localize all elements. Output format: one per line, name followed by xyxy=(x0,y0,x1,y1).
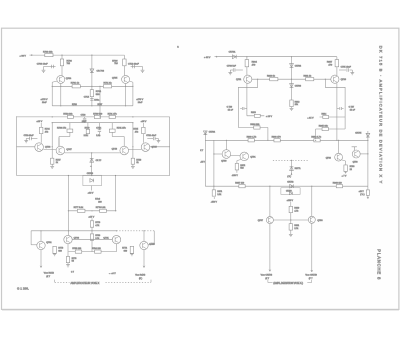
wire +62V rail xyxy=(218,56,337,58)
wire R804 branch xyxy=(246,57,248,75)
transistor Q798 xyxy=(308,216,315,223)
svg-text:(AMPL.DEVIATION VOIE X.): (AMPL.DEVIATION VOIE X.) xyxy=(273,282,303,285)
wire Q738-Q741 link xyxy=(72,238,112,240)
node junction rail/R706 xyxy=(61,55,62,56)
resistor R711 1k xyxy=(103,85,111,88)
svg-text:1k: 1k xyxy=(56,162,58,164)
wire x213.9 column xyxy=(213,140,215,186)
wire Q747 output to right pair xyxy=(65,152,120,154)
capacitor C712 10nF xyxy=(131,66,143,68)
diode CR783 in box xyxy=(281,188,300,195)
svg-text:CR705: CR705 xyxy=(355,132,362,134)
svg-text:C705 40nF: C705 40nF xyxy=(341,66,352,68)
transistor Q705 xyxy=(122,75,130,83)
node junction x100 xyxy=(99,86,100,87)
wire bias H y127.5 xyxy=(238,127,268,129)
resistor R815 10k xyxy=(322,127,328,130)
wire R745 to Q749 xyxy=(142,134,144,143)
svg-text:Q790: Q790 xyxy=(221,160,227,162)
wire R820-R821 xyxy=(290,213,292,224)
svg-text:Q731: Q731 xyxy=(46,242,52,244)
node junction bias xyxy=(68,210,69,211)
resistor R744 47k xyxy=(40,123,42,127)
wire emitter link y86.3 xyxy=(52,85,92,87)
wire diode chain x91.7 xyxy=(91,153,93,175)
ground R773 xyxy=(53,254,57,256)
wire Q704 collector lower xyxy=(60,84,62,106)
wire R744 to Q746 xyxy=(40,134,42,143)
wire diode column lower xyxy=(291,160,293,175)
resistor R734 560 xyxy=(90,90,93,97)
resistor R816 4.7k xyxy=(314,139,320,142)
wire Q748-Q749 link xyxy=(129,148,142,150)
svg-text:AMPLIFICATEUR VOIE X: AMPLIFICATEUR VOIE X xyxy=(71,282,100,285)
transistor Q746 xyxy=(35,143,44,152)
wire cross-coupling dashed xyxy=(117,230,155,232)
svg-text:R709: R709 xyxy=(112,60,118,62)
resistor R807 470 xyxy=(335,60,339,67)
svg-text:CR782: CR782 xyxy=(287,182,294,184)
svg-text:R868 110: R868 110 xyxy=(333,183,343,185)
svg-text:(K ): (K ) xyxy=(139,278,143,280)
node junction x213.9 xyxy=(213,153,214,154)
wire +170V rail xyxy=(52,105,133,107)
svg-text:Q711: Q711 xyxy=(236,79,242,81)
wire Q731 base leg xyxy=(30,231,32,245)
wire Q798 collector drop xyxy=(311,186,313,216)
svg-text:CR701: CR701 xyxy=(229,52,237,54)
svg-text:CR786: CR786 xyxy=(87,173,94,175)
svg-text:R809 4.7k: R809 4.7k xyxy=(247,137,257,139)
node junction output link xyxy=(290,219,291,220)
ground R728 xyxy=(132,164,134,166)
wire Q797 collector drop xyxy=(269,186,271,216)
svg-text:4.7k: 4.7k xyxy=(294,210,298,212)
wire x115.5 drop xyxy=(115,176,117,211)
wire bus y116.9 xyxy=(17,116,170,118)
svg-text:+ 15 V: + 15 V xyxy=(307,117,314,119)
svg-text:CR702: CR702 xyxy=(295,65,302,67)
node junctions base line xyxy=(257,79,258,80)
svg-text:→ +6 V: → +6 V xyxy=(109,273,117,275)
node junction rail2 xyxy=(91,105,92,106)
wire diode column center upper xyxy=(291,57,293,109)
svg-text:CR704: CR704 xyxy=(209,132,216,134)
node -150V label xyxy=(236,170,238,173)
svg-text:Q798: Q798 xyxy=(317,220,323,222)
wire L-feedback right xyxy=(325,79,345,129)
resistor R820 4.7k xyxy=(289,206,292,212)
svg-text:R734: R734 xyxy=(96,91,102,93)
resistor R804 470 xyxy=(245,60,249,67)
ground for C720 xyxy=(26,138,29,140)
node junctions bottom line xyxy=(115,175,116,176)
wire Q742 collector xyxy=(143,231,145,242)
resistor R731 47k xyxy=(109,115,115,118)
wire Q792 emitter chain xyxy=(345,161,347,165)
resistor R810 1k xyxy=(270,78,278,81)
ground R727 xyxy=(51,164,53,166)
resistor R806 10k xyxy=(254,126,260,129)
wire cross-coupling y232 xyxy=(31,230,116,232)
svg-text:+ 7 V: + 7 V xyxy=(342,176,347,178)
svg-text:R730 500: R730 500 xyxy=(93,113,103,115)
resistor R722 10k xyxy=(68,115,74,118)
capacitor C744 2.2uF xyxy=(98,123,100,130)
svg-text:+15 V: +15 V xyxy=(36,121,42,123)
transistor Q791 xyxy=(240,152,249,161)
node junctions y232 xyxy=(68,230,69,231)
svg-text:R702 12k: R702 12k xyxy=(43,51,53,53)
wire dashed inter-block xyxy=(273,159,308,161)
wire Q790 base from x213.9 xyxy=(214,153,222,155)
diode CR701 on rail xyxy=(232,55,236,59)
resistor R702 12k xyxy=(45,54,53,57)
svg-text:R877k: R877k xyxy=(295,168,301,170)
svg-text:10uF: 10uF xyxy=(42,102,47,104)
svg-text:R711 1k: R711 1k xyxy=(104,83,113,85)
resistor R738 row2 xyxy=(69,123,71,129)
wire bracket amplificateur voie X xyxy=(54,280,56,283)
svg-text:CR 7?: CR 7? xyxy=(96,160,103,162)
svg-text:R722 10k: R722 10k xyxy=(63,113,73,115)
wire bias line y210.8 xyxy=(68,210,116,212)
svg-text:R806 10k: R806 10k xyxy=(250,124,260,126)
wire rail corner right xyxy=(336,57,338,75)
svg-text:G 1 288.: G 1 288. xyxy=(17,287,29,291)
resistor R878 below bus right xyxy=(367,186,369,190)
resistor R821 2.7k xyxy=(289,224,292,230)
wire Q797 output down xyxy=(269,224,271,271)
node arrow tick xyxy=(291,173,293,175)
node junction link xyxy=(91,239,92,240)
resistor R727 1k xyxy=(51,158,54,164)
svg-text:Q797: Q797 xyxy=(258,220,264,222)
transistor Q793 xyxy=(352,147,357,151)
wire Q720 emitter down xyxy=(336,83,338,140)
resistor R779 4.7k xyxy=(91,218,93,221)
wire Q798 output down xyxy=(311,223,313,271)
svg-text:100n: 100n xyxy=(94,100,100,102)
svg-text:2.7k: 2.7k xyxy=(294,228,298,230)
resistor R814 xyxy=(323,116,329,119)
transistor Q738 xyxy=(64,235,72,243)
transistor Q720 xyxy=(331,75,339,83)
svg-text:2.2u: 2.2u xyxy=(96,135,100,137)
wire row2 bottom right xyxy=(112,136,124,138)
diode CR780 on bus xyxy=(290,184,294,188)
svg-text:CR783: CR783 xyxy=(286,190,292,192)
svg-text:+ 15 V: + 15 V xyxy=(266,116,273,118)
wire +80V rail xyxy=(33,54,124,56)
svg-text:Q705: Q705 xyxy=(112,77,118,79)
wire Q704 emitter to +170V rail xyxy=(51,82,53,106)
svg-text:Q704: Q704 xyxy=(66,78,72,80)
svg-text:Q748: Q748 xyxy=(112,149,118,151)
wire Q731 output to coil xyxy=(40,250,42,267)
ground R774 xyxy=(130,254,134,256)
wire R779-R780 xyxy=(91,227,93,234)
svg-text:C720 40nF: C720 40nF xyxy=(24,135,35,137)
svg-text:C703 10nF: C703 10nF xyxy=(37,64,48,66)
resistor R867 110 xyxy=(239,185,245,188)
ground R821 xyxy=(290,230,292,234)
svg-text:R731 47k: R731 47k xyxy=(108,113,118,115)
svg-text:+150 V: +150 V xyxy=(287,200,294,202)
wire Q705 lower xyxy=(125,84,127,106)
wire CR708 branch xyxy=(91,55,93,106)
svg-text:-15 V: -15 V xyxy=(200,161,205,163)
resistor R745 47k xyxy=(142,123,144,127)
wire Q793 base wire xyxy=(360,153,368,155)
wire Q731 collector xyxy=(40,231,42,242)
wire right box edge xyxy=(169,117,171,176)
wire R706 branch xyxy=(61,55,63,75)
resistor R730 500 xyxy=(94,115,100,118)
wire bus y122.7 xyxy=(52,122,133,124)
resistor R872 5k6 xyxy=(235,163,238,170)
ground R812 xyxy=(290,108,294,110)
wire row2 bottom left xyxy=(59,136,70,138)
wire link Q797-Q798 xyxy=(273,219,308,221)
wire L-feedback left xyxy=(238,79,257,127)
resistor R781 1k xyxy=(72,85,80,88)
diode CR785 xyxy=(90,159,94,163)
svg-text:Vers CR7X8: Vers CR7X8 xyxy=(261,274,273,277)
svg-text:Q792: Q792 xyxy=(326,157,332,159)
svg-text:47k: 47k xyxy=(45,131,48,133)
svg-text:+15 V: +15 V xyxy=(141,121,147,123)
wire rail corner to R709 xyxy=(123,55,125,75)
svg-text:DK 715 B · AMPLIFICATEUR DE: DK 715 B · AMPLIFICATEUR DE DEVIATION X … xyxy=(378,46,383,185)
wire R780 down xyxy=(91,240,93,251)
wire +15V branch left xyxy=(247,115,264,117)
resistor R740 2k2 xyxy=(87,123,89,130)
svg-text:2.7k: 2.7k xyxy=(95,238,99,240)
svg-text:R807: R807 xyxy=(327,61,333,63)
wire emitter column left xyxy=(51,123,53,159)
resistor R777 5.6k xyxy=(77,209,85,212)
ground for C708 xyxy=(230,69,233,71)
wire Q705 emitter to rail xyxy=(132,82,134,106)
ground for C721 xyxy=(155,138,158,140)
frame shadow xyxy=(2,310,399,312)
svg-text:15 nF: 15 nF xyxy=(350,110,356,112)
node junction y86 xyxy=(91,86,92,87)
transistor Q741 xyxy=(112,235,120,243)
wire Q746 base from box edge xyxy=(17,146,35,148)
wire Q741 emitter xyxy=(116,244,118,252)
ground for C703 xyxy=(43,67,45,71)
resistor R809 4.7k xyxy=(248,139,254,142)
resistor R783 100 xyxy=(75,250,82,253)
wire long bus y140.3 xyxy=(205,139,368,141)
svg-text:15k: 15k xyxy=(295,104,298,106)
svg-text:2.2k: 2.2k xyxy=(217,194,221,196)
svg-text:R810 1k: R810 1k xyxy=(267,75,276,77)
svg-text:+170 V: +170 V xyxy=(41,99,49,101)
wire emitter column right xyxy=(132,123,134,159)
resistor R773 680 xyxy=(54,247,56,249)
resistor R871 2.2k xyxy=(213,186,215,190)
resistor R813 xyxy=(254,114,260,117)
resistor R778 5.2k xyxy=(100,209,107,212)
resistor R780 2.7k xyxy=(90,234,93,240)
diode CR776 up xyxy=(290,167,294,171)
transistor Q749 xyxy=(141,143,150,152)
resistor R741 row2 xyxy=(111,123,113,129)
svg-text:R784 100: R784 100 xyxy=(92,248,102,250)
svg-text:-150 V: -150 V xyxy=(211,202,218,204)
capacitor C726 10uF xyxy=(84,117,86,118)
svg-text:10uF: 10uF xyxy=(138,102,143,104)
svg-text:CR703: CR703 xyxy=(295,85,302,87)
ground R775 xyxy=(67,263,69,265)
wire Q790 collector xyxy=(225,140,227,149)
svg-text:PLANCHE 8: PLANCHE 8 xyxy=(377,249,382,280)
wire bias H right y129 xyxy=(316,128,346,130)
wire bias line y251.6 xyxy=(68,251,116,253)
wire left box edge xyxy=(16,116,18,175)
wire Q738 emitter chain xyxy=(67,244,69,257)
wire x267.9 drop xyxy=(267,128,269,141)
svg-text:CR 708: CR 708 xyxy=(97,71,105,73)
wire bracket ampl deviation voie X xyxy=(267,280,269,283)
svg-text:C708 5nF: C708 5nF xyxy=(227,66,237,68)
resistor R775 56 xyxy=(66,257,69,263)
transistor Q711 xyxy=(244,75,252,83)
svg-text:( 7x ): ( 7x ) xyxy=(360,194,365,196)
diode CR702 xyxy=(290,64,294,68)
wire Q742 output to coil xyxy=(143,250,145,267)
wire Q747 collector xyxy=(58,138,60,147)
ground for C705 xyxy=(350,69,353,71)
svg-text:R867 110: R867 110 xyxy=(235,183,245,185)
wire Q792 collector xyxy=(338,140,340,153)
svg-text:Vers CR7X9: Vers CR7X9 xyxy=(305,274,317,277)
svg-text:R781 1k: R781 1k xyxy=(71,83,80,85)
resistor R784 100 xyxy=(95,250,102,253)
svg-text:C721 40nF: C721 40nF xyxy=(146,135,157,137)
svg-text:K 7: K 7 xyxy=(200,150,203,152)
wire Q749 base to box edge xyxy=(150,146,170,148)
transistor Q731 xyxy=(37,241,45,249)
wire bottom box line xyxy=(17,175,170,177)
wire Q791 emitter chain xyxy=(236,161,238,164)
svg-text:+ 62 V: + 62 V xyxy=(204,57,211,59)
svg-text:+12 V: +12 V xyxy=(88,193,94,195)
svg-text:+ 80 V: + 80 V xyxy=(20,56,27,58)
wire Q711 emitter down xyxy=(246,83,248,116)
svg-text:Vers R4X2: Vers R4X2 xyxy=(44,271,55,274)
svg-text:R811 1k: R811 1k xyxy=(304,75,313,77)
svg-text:R741 27k: R741 27k xyxy=(117,127,127,129)
wire collector line Q738 xyxy=(67,176,69,236)
wire base line y79.2 xyxy=(252,78,331,80)
transistor Q797 xyxy=(266,217,273,224)
transistor Q747 xyxy=(56,146,65,155)
svg-text:R816 4.7k: R816 4.7k xyxy=(311,137,321,139)
svg-text:+15 V: +15 V xyxy=(359,191,365,193)
resistor R706 7k5 xyxy=(60,59,63,66)
svg-text:R815 10k: R815 10k xyxy=(319,125,329,127)
svg-text:R783 100: R783 100 xyxy=(72,248,82,250)
wire Q742 base leg xyxy=(153,231,155,245)
diode CR703 xyxy=(290,84,294,88)
resistor R728 1k xyxy=(131,158,134,164)
resistor R709 7k5 xyxy=(123,59,126,66)
diode CR705 upper xyxy=(367,131,369,186)
wire long bus y186.2 xyxy=(205,185,368,187)
svg-text:Q791: Q791 xyxy=(250,157,256,159)
svg-text:Q746: Q746 xyxy=(45,147,51,149)
node junction rail/R804 xyxy=(246,56,247,57)
resistor R812 15k xyxy=(290,100,293,107)
svg-text:R778 5.6k: R778 5.6k xyxy=(96,207,106,209)
svg-text:1k: 1k xyxy=(136,162,138,164)
wire Q746-Q747 link xyxy=(43,148,56,150)
svg-text:Q793: Q793 xyxy=(353,161,359,163)
transistor Q748 xyxy=(120,146,129,155)
capacitor C714 100n xyxy=(90,98,93,100)
svg-text:R808 470: R808 470 xyxy=(272,137,282,139)
wire center link xyxy=(92,85,133,87)
svg-text:R777 5.6k: R777 5.6k xyxy=(74,207,84,209)
resistor R868 110 xyxy=(336,185,342,188)
transistor Q742 xyxy=(140,241,148,249)
svg-text:Q720: Q720 xyxy=(341,79,347,81)
node junctions on buses xyxy=(52,116,53,117)
svg-text:R706: R706 xyxy=(67,60,73,62)
resistor R774 680 xyxy=(130,246,133,253)
wire x100 drop xyxy=(99,86,101,117)
node +7 label xyxy=(345,172,347,174)
svg-text:4.7k: 4.7k xyxy=(95,225,99,227)
svg-text:( R ): ( R ) xyxy=(287,176,291,178)
transistor Q790 xyxy=(222,150,231,159)
svg-text:-150 V: -150 V xyxy=(232,175,239,177)
svg-text:C 729: C 729 xyxy=(227,106,233,108)
svg-text:R738 27k: R738 27k xyxy=(57,127,67,129)
resistor R811 1k xyxy=(306,78,314,81)
resistor R788 22 xyxy=(344,165,347,172)
svg-text:C 727: C 727 xyxy=(349,106,355,108)
svg-text:2.2k: 2.2k xyxy=(84,135,88,137)
wire x315.6 drop xyxy=(315,129,317,140)
transistor Q704 xyxy=(57,75,65,83)
transistor Q792 xyxy=(335,153,343,161)
ground for C712 xyxy=(142,67,144,71)
svg-text:Q747: Q747 xyxy=(66,149,72,151)
svg-text:47k: 47k xyxy=(135,131,138,133)
svg-text:Vers R4X3: Vers R4X3 xyxy=(135,273,146,276)
svg-text:C 7: C 7 xyxy=(71,272,74,274)
svg-text:C714: C714 xyxy=(84,96,90,98)
svg-text:Q742: Q742 xyxy=(149,243,155,245)
wire Q790-Q791 link xyxy=(231,154,241,156)
svg-text:R804: R804 xyxy=(252,61,258,63)
node junction x91.7 xyxy=(91,152,92,153)
capacitor C703 10nF xyxy=(44,66,56,68)
svg-text:C712 10nF: C712 10nF xyxy=(128,64,139,66)
diode CR708 xyxy=(90,69,94,73)
node junctions bus y186.2 xyxy=(269,186,270,187)
node junction rail/CR708 xyxy=(91,55,92,56)
wire +15V branch right xyxy=(320,116,346,118)
diode CR704 left column xyxy=(204,131,206,186)
node junctions bus y140.3 xyxy=(226,140,227,141)
svg-text:15 nF: 15 nF xyxy=(228,110,234,112)
